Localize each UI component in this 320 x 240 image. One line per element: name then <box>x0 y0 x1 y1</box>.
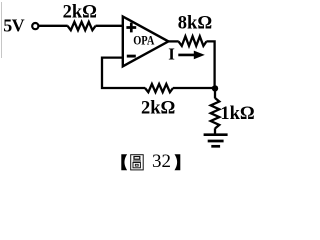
wire: R3 to junction (corner) <box>206 41 214 88</box>
caption bracket left <box>121 154 127 170</box>
svg-text:I: I <box>168 45 175 64</box>
op-amp U1 OPA <box>123 17 169 67</box>
svg-text:8kΩ: 8kΩ <box>178 14 212 34</box>
current direction arrow <box>178 51 205 60</box>
svg-text:32: 32 <box>152 151 171 172</box>
resistor R1 2k (input) <box>68 22 96 30</box>
resistor R2 2k (feedback) <box>145 84 173 92</box>
svg-text:OPA: OPA <box>133 34 155 48</box>
wire: op-amp output to R3 <box>167 40 179 42</box>
wire: R2 to junction node <box>173 87 215 89</box>
svg-text:2kΩ: 2kΩ <box>63 2 97 22</box>
caption glyph TU (figure) <box>131 155 144 170</box>
scan artifact left edge <box>1 2 3 58</box>
caption bracket right <box>175 154 181 170</box>
wire: inverting input feedback path (left, down, right) <box>102 58 145 88</box>
node junction (solder dot) <box>212 85 218 91</box>
wire: R4 to ground <box>214 128 216 134</box>
wire: junction to R4 <box>214 88 216 98</box>
ground <box>204 135 228 147</box>
svg-text:5V: 5V <box>3 16 24 36</box>
resistor R3 8k (output) <box>179 36 207 46</box>
terminal (input node circle) <box>32 23 38 29</box>
resistor R4 1k (vertical) <box>211 98 220 129</box>
svg-text:1kΩ: 1kΩ <box>220 104 254 124</box>
svg-text:2kΩ: 2kΩ <box>141 98 175 118</box>
wire: terminal to R1 <box>39 25 68 27</box>
wire: R1 to op-amp non-inverting input <box>96 25 123 27</box>
